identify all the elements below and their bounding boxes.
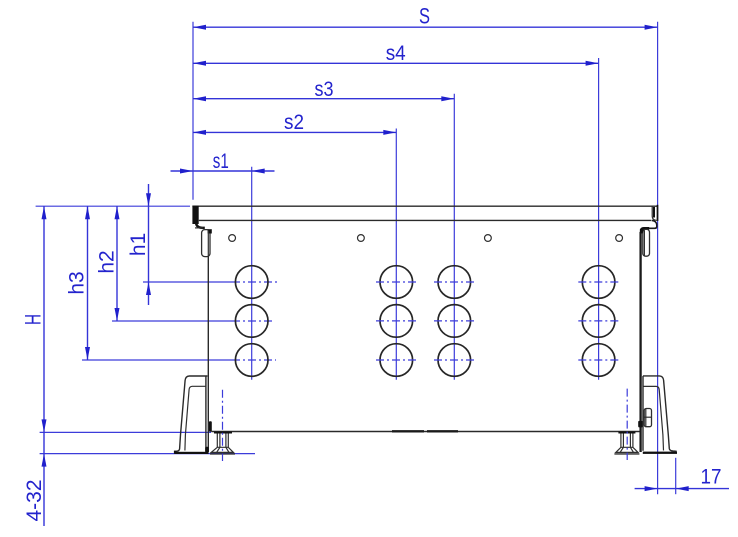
- dimension H x=44: [20, 206, 46, 432]
- extension line ground y=453.6: [40, 453, 255, 455]
- extension line column1 x=251.7: [251, 167, 253, 380]
- svg-text:s3: s3: [315, 78, 334, 101]
- lip bottom edge: [199, 219, 652, 221]
- bottom stiffener thick segments: [392, 430, 424, 432]
- small hole 3: [485, 235, 492, 242]
- centerline row1 col2: [376, 281, 417, 283]
- centerline row3 col3: [434, 359, 475, 361]
- dimension h3 x=87.5: [65, 206, 90, 360]
- extension line column3 x=454.3: [453, 94, 455, 380]
- svg-text:s1: s1: [213, 150, 229, 173]
- right wall: [639, 232, 641, 452]
- svg-text:H: H: [20, 314, 45, 325]
- centerline row1 col4: [578, 281, 619, 283]
- svg-text:h1: h1: [127, 233, 150, 256]
- small hole 4: [616, 235, 623, 242]
- lip top edge: [192, 205, 657, 207]
- extension line top y=206.2: [36, 205, 190, 207]
- centerline row2 col3: [434, 320, 475, 322]
- extension line column4 x=598.6: [598, 58, 600, 380]
- svg-text:s2: s2: [284, 111, 304, 134]
- svg-text:h3: h3: [65, 271, 88, 294]
- top-left hinge knuckle: [202, 230, 210, 257]
- centerline row2 col4: [578, 320, 619, 322]
- svg-text:h2: h2: [95, 250, 118, 273]
- knockout circles column4: [582, 266, 615, 299]
- dimension s2 y=132.4: [193, 111, 396, 135]
- dimension s3 y=98.7: [193, 78, 454, 101]
- left foot stem: [216, 434, 218, 448]
- right bracket: [643, 376, 677, 451]
- top-right hinge knuckle: [643, 229, 650, 256]
- centerline row3 col4: [578, 359, 619, 361]
- extension centerline row3 y=360: [82, 359, 232, 361]
- bottom-left clip: [209, 421, 212, 431]
- centerline row3 col2: [376, 359, 417, 361]
- bottom-right clip: [638, 421, 643, 428]
- right foot ground line: [614, 453, 639, 455]
- lip left end cap: [192, 206, 198, 224]
- extension line column2 x=396.3: [395, 129, 397, 380]
- extension centerline row2 y=321: [112, 320, 232, 322]
- svg-text:S: S: [419, 4, 430, 29]
- extension line box bottom y=432.4: [40, 431, 211, 433]
- right foot stem: [620, 434, 622, 448]
- centerline row1 col3: [434, 281, 475, 283]
- left bracket: [176, 376, 208, 451]
- dimension h1 x=148.5 outside arrows: [127, 184, 151, 305]
- knockout circles column3: [438, 266, 471, 299]
- extension line bracket edge x=675.7: [675, 458, 677, 494]
- left foot ground line: [210, 453, 235, 455]
- small hole 2: [358, 235, 365, 242]
- lip right end cap: [653, 207, 655, 218]
- small hole 1: [229, 235, 236, 242]
- dimension 4-32 x=44 outside arrows: [23, 432, 47, 526]
- extension centerline row1 y=282: [143, 281, 232, 283]
- extension line right edge x=657.6: [657, 22, 659, 494]
- right foot centerline: [626, 389, 628, 460]
- svg-text:4-32: 4-32: [23, 479, 46, 521]
- dimension 17 y=488.6 outside arrows: [635, 466, 729, 492]
- bottom-right latch: [644, 409, 651, 427]
- right foot plate: [618, 432, 635, 434]
- dimension h2 x=117: [95, 206, 119, 321]
- bottom edge: [211, 431, 639, 433]
- svg-text:s4: s4: [386, 42, 406, 65]
- dimension s4 y=63.3: [193, 42, 599, 66]
- knockout circles column2: [380, 266, 413, 299]
- right foot flare: [616, 447, 638, 452]
- knockout circles column1: [235, 266, 268, 299]
- left foot plate: [214, 432, 232, 434]
- left foot centerline: [222, 390, 224, 461]
- left foot flare: [211, 447, 233, 452]
- svg-text:17: 17: [701, 466, 722, 489]
- extension line left edge x=193: [192, 22, 194, 200]
- centerline row2 col2: [376, 320, 417, 322]
- dimension s1 y=171 outside arrows: [171, 150, 275, 174]
- left wall: [207, 232, 209, 453]
- dimension S y=27.2: [193, 4, 658, 30]
